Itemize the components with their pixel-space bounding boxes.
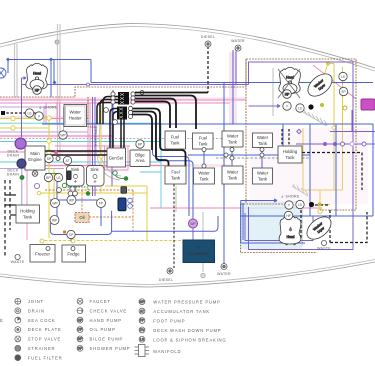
svg-text:Main: Main (30, 151, 40, 156)
svg-text:HP: HP (78, 318, 83, 322)
svg-text:Holding: Holding (283, 149, 298, 154)
svg-text:Tank: Tank (171, 176, 181, 181)
svg-text:JOINT: JOINT (28, 299, 44, 304)
svg-text:DRAIN: DRAIN (7, 173, 20, 177)
svg-text:Fuel: Fuel (171, 135, 179, 140)
svg-text:Tank: Tank (23, 215, 33, 220)
svg-text:Air: Air (196, 245, 202, 250)
svg-text:STOP VALVE: STOP VALVE (28, 337, 61, 342)
svg-text:WP: WP (60, 133, 66, 137)
svg-text:SHOWER PUMP: SHOWER PUMP (90, 346, 131, 351)
svg-text:Water: Water (257, 171, 269, 176)
svg-text:LOOP & SIPHON BREAKING: LOOP & SIPHON BREAKING (153, 337, 226, 342)
svg-text:AT: AT (66, 159, 70, 163)
svg-text:BILGE PUMP: BILGE PUMP (90, 337, 124, 342)
svg-text:DRAIN: DRAIN (7, 154, 20, 158)
svg-text:⏚ SHORE: ⏚ SHORE (38, 105, 57, 110)
svg-text:Heater: Heater (69, 116, 82, 121)
svg-text:DIESEL: DIESEL (159, 278, 173, 282)
svg-text:Area: Area (135, 158, 145, 163)
svg-text:AT: AT (140, 309, 144, 313)
svg-text:Freezer: Freezer (35, 252, 50, 257)
svg-text:GenSet: GenSet (109, 156, 124, 161)
svg-text:Conditioner: Conditioner (188, 251, 211, 256)
svg-text:WATER PRESSURE PUMP: WATER PRESSURE PUMP (153, 300, 220, 305)
svg-text:Tank: Tank (228, 176, 238, 181)
svg-text:⏚ SHORE: ⏚ SHORE (280, 194, 299, 199)
svg-text:Head: Head (287, 235, 295, 239)
svg-text:Sink: Sink (71, 167, 80, 172)
svg-text:WP: WP (139, 300, 145, 304)
svg-text:DRAIN: DRAIN (28, 308, 45, 313)
svg-text:CP: CP (69, 233, 74, 237)
svg-text:Fuel: Fuel (199, 136, 207, 141)
svg-text:Fuel: Fuel (171, 170, 179, 175)
svg-text:Fridge: Fridge (67, 252, 80, 257)
svg-text:WP: WP (69, 198, 75, 202)
svg-text:Tank: Tank (199, 177, 209, 182)
svg-text:E: E (0, 318, 4, 323)
svg-text:HP: HP (285, 92, 290, 96)
svg-text:Oil: Oil (79, 215, 84, 220)
svg-text:WATER: WATER (231, 39, 245, 43)
svg-text:Water: Water (70, 110, 82, 115)
svg-text:CHECK VALVE: CHECK VALVE (90, 308, 128, 313)
svg-text:HP: HP (35, 88, 40, 92)
svg-text:DECK WASH DOWN PUMP: DECK WASH DOWN PUMP (153, 328, 221, 333)
svg-text:Engine: Engine (28, 157, 42, 162)
svg-text:FOOT PUMP: FOOT PUMP (153, 319, 185, 324)
svg-text:Tank: Tank (198, 142, 208, 147)
svg-text:WP: WP (52, 201, 58, 205)
svg-text:FUEL FILTER: FUEL FILTER (28, 355, 63, 360)
svg-text:DIESEL: DIESEL (201, 35, 215, 39)
svg-text:Tank: Tank (258, 177, 268, 182)
svg-text:Holding: Holding (20, 209, 35, 214)
svg-text:Tank: Tank (258, 141, 268, 146)
svg-text:Sink: Sink (90, 167, 99, 172)
svg-text:SEA COCK: SEA COCK (28, 318, 56, 323)
svg-text:OIL PUMP: OIL PUMP (90, 327, 116, 332)
svg-text:HAND PUMP: HAND PUMP (90, 318, 122, 323)
svg-text:FAUCET: FAUCET (90, 299, 111, 304)
svg-text:WP: WP (190, 222, 196, 226)
svg-text:Tank: Tank (285, 155, 295, 160)
svg-text:MANIFOLD: MANIFOLD (153, 349, 181, 354)
svg-text:DV: DV (140, 328, 145, 332)
svg-text:ACCUMULATOR TANK: ACCUMULATOR TANK (153, 309, 210, 314)
svg-text:Water: Water (227, 170, 239, 175)
svg-text:STRAINER: STRAINER (28, 346, 56, 351)
svg-text:Water: Water (257, 135, 269, 140)
svg-text:OP: OP (78, 328, 84, 332)
svg-text:DECK PLATE: DECK PLATE (28, 327, 62, 332)
svg-text:Water: Water (227, 134, 239, 139)
svg-text:Head: Head (33, 72, 41, 76)
svg-text:WATER: WATER (217, 272, 231, 276)
svg-text:WASTE: WASTE (317, 247, 331, 251)
svg-text:Bilge: Bilge (135, 153, 145, 158)
svg-text:Tank: Tank (170, 141, 180, 146)
svg-text:Water: Water (198, 171, 210, 176)
svg-text:Tank: Tank (228, 140, 238, 145)
svg-text:WP: WP (52, 218, 58, 222)
svg-text:WASTE: WASTE (11, 260, 25, 264)
svg-text:HP: HP (286, 214, 291, 218)
